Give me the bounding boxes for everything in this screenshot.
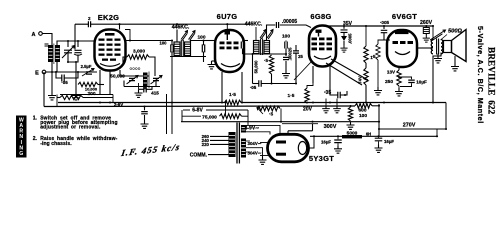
label .5 volume bbox=[264, 58, 268, 63]
IFT1 secondary winding bbox=[185, 42, 191, 56]
6G8G grid cap bbox=[316, 30, 322, 37]
6U7G leads down bbox=[222, 72, 242, 103]
5Y3GT filament bbox=[298, 142, 306, 155]
svg-text:.00005: .00005 bbox=[282, 19, 298, 25]
variable capacitor tuning gang bbox=[62, 46, 75, 63]
title BREVILLE 622 bbox=[485, 47, 495, 115]
wire bus tap 75000 bbox=[225, 103, 227, 117]
ground pair left bbox=[322, 99, 330, 113]
svg-text:5-Valve, A.C. B/C, Mantel: 5-Valve, A.C. B/C, Mantel bbox=[476, 26, 485, 124]
svg-text:2: 2 bbox=[88, 16, 91, 21]
label 270V bbox=[403, 122, 416, 128]
label .5 grid leak bbox=[371, 40, 384, 87]
svg-text:74V: 74V bbox=[358, 76, 363, 84]
resistor .5 tone bbox=[257, 106, 280, 117]
transformer T1 HT winding upper bbox=[241, 139, 246, 148]
ground below L1 bbox=[48, 92, 56, 100]
svg-text:A: A bbox=[32, 32, 36, 38]
label 300V bbox=[324, 124, 337, 130]
speaker cone bbox=[452, 30, 467, 62]
transformer T1 core bbox=[237, 123, 239, 164]
svg-text:10µF: 10µF bbox=[416, 79, 427, 84]
wire rectifier HT out bbox=[309, 136, 315, 148]
svg-text:6U7G: 6U7G bbox=[217, 12, 238, 21]
svg-text:·05: ·05 bbox=[61, 80, 68, 85]
svg-text:·5: ·5 bbox=[269, 111, 274, 117]
wire heater bus lower bbox=[44, 105, 355, 108]
wire gang to ground rail bbox=[75, 62, 77, 92]
svg-text:446KC.: 446KC. bbox=[172, 25, 190, 31]
wire IFT1 down legs bbox=[167, 57, 204, 135]
capacitor 16uF first bbox=[321, 136, 342, 145]
svg-text:50,000: 50,000 bbox=[254, 60, 259, 73]
IFT2 primary winding bbox=[254, 41, 260, 54]
ground 415 bbox=[135, 90, 143, 98]
resistor 100 divider bbox=[348, 106, 367, 121]
svg-text:EK2G: EK2G bbox=[98, 13, 120, 22]
resistor volume control bbox=[269, 55, 273, 74]
label 5Y3GT bbox=[309, 154, 334, 163]
IFT2 tuning arrow secondary bbox=[267, 30, 273, 39]
svg-text:415: 415 bbox=[151, 90, 159, 95]
wire IFT2 left rail bbox=[252, 54, 254, 84]
svg-text:100: 100 bbox=[160, 41, 168, 46]
warning item 2 bbox=[33, 136, 118, 147]
label 74V bbox=[358, 76, 363, 84]
resistor 600 field bbox=[355, 103, 379, 113]
wire IFT1 secondary to 6U7G bbox=[204, 40, 216, 42]
capacitor 100 IFT1 primary bbox=[160, 41, 174, 57]
oscillator padder 1 bbox=[127, 76, 139, 85]
capacitor 415 osc pad bbox=[139, 83, 160, 95]
svg-text:·5: ·5 bbox=[264, 58, 268, 63]
IFT1 feed stem bbox=[176, 30, 178, 43]
capacitor 100 IFT2 primary bbox=[241, 41, 243, 55]
svg-text:304V∼: 304V∼ bbox=[248, 141, 262, 146]
capacitor 100 IFT1 secondary bbox=[191, 35, 206, 57]
svg-text:300V: 300V bbox=[324, 124, 337, 130]
label 6V6GT bbox=[392, 12, 417, 21]
svg-text:16µF: 16µF bbox=[384, 139, 394, 144]
wire 270V line bbox=[379, 128, 446, 130]
electrolytic 25 cathode bbox=[293, 45, 303, 62]
svg-text:13V: 13V bbox=[387, 70, 396, 75]
svg-text:2.: 2. bbox=[33, 136, 38, 142]
svg-text:100: 100 bbox=[197, 35, 205, 41]
title 5-Valve ACBC Mantel bbox=[476, 26, 485, 124]
wire output return bbox=[445, 103, 447, 130]
svg-text:100: 100 bbox=[359, 113, 367, 119]
6V6GT cathode lead bbox=[398, 67, 400, 71]
EK2G internal electrodes bbox=[99, 33, 121, 66]
wire E lead down bbox=[43, 72, 45, 107]
ground pair right bbox=[333, 99, 341, 113]
ground T1 centre tap bbox=[259, 157, 267, 165]
label EK2G bbox=[98, 13, 120, 22]
output transformer primary bbox=[431, 26, 433, 54]
svg-text:6H: 6H bbox=[366, 131, 371, 136]
svg-text:○○○○: ○○○○ bbox=[129, 66, 140, 71]
trimmer capacitor aerial bbox=[68, 41, 82, 62]
svg-text:1·5: 1·5 bbox=[229, 92, 236, 98]
ground 16uF second bbox=[375, 145, 383, 153]
wire heater winding bottom bbox=[246, 132, 270, 135]
svg-text:·05: ·05 bbox=[250, 85, 257, 90]
wire heater bus upper bbox=[58, 102, 446, 104]
resistor 3,000 osc grid bbox=[127, 49, 149, 60]
label 500ohm field coil bbox=[441, 29, 463, 41]
wire AVC top bus bbox=[75, 23, 250, 25]
output transformer core bbox=[437, 39, 439, 55]
wire bias box bbox=[57, 95, 113, 107]
IFT2 secondary top wire bbox=[267, 25, 276, 41]
capacitor 10uF cathode bbox=[399, 77, 427, 87]
output transformer secondary bbox=[441, 40, 443, 54]
svg-text:270V: 270V bbox=[403, 122, 416, 128]
wire choke feed bbox=[310, 129, 437, 136]
output transformer arrow bbox=[430, 30, 446, 41]
mains tap 260 bbox=[202, 134, 229, 139]
wire 300V top bbox=[181, 109, 379, 122]
wire 6G8G top line bbox=[323, 25, 434, 27]
ground grid leak bbox=[374, 87, 382, 95]
capacitor 2 AVC bbox=[88, 16, 91, 27]
resistor 75,000 bbox=[182, 114, 248, 121]
capacitor 16uF second bbox=[375, 136, 395, 144]
6V6GT internal dashes bbox=[393, 41, 414, 55]
wire heater winding top bbox=[246, 125, 280, 134]
IFT1 tuning arrow secondary bbox=[189, 31, 196, 41]
6U7G cathode ground bbox=[208, 61, 217, 69]
IFT1 primary winding bbox=[174, 42, 180, 56]
capacitor heater bypass bbox=[141, 107, 148, 121]
label 446KC first IF bbox=[172, 25, 190, 31]
label 10,000 bbox=[85, 86, 98, 91]
6U7G grid cap bbox=[225, 24, 231, 40]
IFT2 tuning arrow primary bbox=[260, 30, 266, 39]
wire L1 bottom to ground bbox=[52, 62, 57, 92]
wire 6-8V line bbox=[183, 109, 248, 111]
svg-text:2.5µF: 2.5µF bbox=[81, 64, 92, 69]
6G8G leads down bbox=[313, 66, 330, 83]
capacitor 2.5uF AVC bbox=[81, 64, 94, 76]
svg-text:adjustment or removal.: adjustment or removal. bbox=[40, 125, 101, 131]
tube 6G8G envelope bbox=[309, 26, 336, 67]
svg-text:·005: ·005 bbox=[380, 20, 390, 25]
label .00025 bbox=[288, 47, 293, 60]
aerial coil L1 bbox=[45, 44, 61, 65]
ground speaker frame bbox=[451, 56, 459, 71]
terminal E bbox=[35, 70, 97, 76]
wire heater riser right bbox=[247, 110, 249, 125]
transformer T1 heater winding bbox=[241, 125, 246, 133]
svg-text:25: 25 bbox=[298, 54, 303, 59]
resistor 250 cathode bbox=[385, 70, 401, 89]
svg-text:4-9V∼: 4-9V∼ bbox=[245, 125, 260, 131]
svg-text:260V: 260V bbox=[420, 20, 433, 26]
svg-text:BREVILLE 622: BREVILLE 622 bbox=[485, 47, 495, 115]
svg-text:75,000: 75,000 bbox=[202, 115, 217, 121]
wire heater riser left bbox=[181, 110, 183, 122]
label 6G8G bbox=[310, 12, 331, 21]
note I.F. 455 kc/s bbox=[120, 142, 182, 158]
svg-text:250: 250 bbox=[385, 79, 393, 85]
ground 16uF first bbox=[334, 145, 342, 153]
EK2G top cap lead bbox=[119, 24, 121, 29]
label 6-8V bbox=[192, 107, 203, 113]
oscillator trimmer 2 bbox=[151, 76, 163, 85]
svg-text:20V: 20V bbox=[303, 106, 313, 112]
wire IFT2 bottom bbox=[243, 53, 287, 56]
capacitor -05 AF bbox=[250, 80, 296, 90]
svg-text:G: G bbox=[19, 151, 23, 157]
capacitor .005 coupling bbox=[380, 20, 390, 40]
terminal A bbox=[32, 32, 52, 45]
label 446KC second IF bbox=[245, 21, 263, 27]
svg-text:220: 220 bbox=[202, 142, 210, 147]
svg-text:-ing chassis.: -ing chassis. bbox=[40, 141, 72, 147]
svg-text:446KC.: 446KC. bbox=[245, 21, 263, 27]
6V6GT plate wire bbox=[417, 47, 433, 49]
svg-text:200: 200 bbox=[87, 91, 95, 97]
capacitor -05 aerial bbox=[56, 72, 78, 85]
label 6U7G bbox=[217, 12, 238, 21]
wire OPT secondary down bbox=[433, 53, 441, 103]
IFT1 core bbox=[181, 40, 183, 57]
6U7G internal dashes bbox=[220, 42, 241, 67]
wire L1 top to gang bbox=[57, 41, 95, 47]
transformer T1 primary bbox=[229, 132, 236, 157]
wire IFT1 bottom bbox=[170, 56, 206, 57]
label 304V lower bbox=[246, 151, 269, 156]
svg-text:304V∼: 304V∼ bbox=[248, 151, 262, 156]
resistor 50,000 AVC bbox=[78, 74, 125, 87]
capacitor .00005 bbox=[276, 19, 297, 28]
label 304V upper bbox=[246, 141, 269, 146]
oscillator coil turns bbox=[129, 66, 140, 71]
resistor 1-5 heater bbox=[225, 92, 242, 105]
capacitor .05 output bbox=[324, 76, 347, 98]
tube 5Y3GT envelope bbox=[268, 134, 309, 162]
wire EK2G plate to IFT1 bbox=[125, 30, 171, 41]
wire T1 centre tap bbox=[246, 148, 263, 157]
electrolytic 35V screen bbox=[340, 21, 352, 52]
junction tuner grid bbox=[77, 40, 79, 42]
ground 100 divider bbox=[347, 122, 355, 130]
svg-text:2-6V: 2-6V bbox=[114, 102, 123, 107]
resistor bias lower bbox=[364, 63, 368, 103]
svg-text:1.: 1. bbox=[33, 116, 38, 122]
label 4-9V heater bbox=[245, 125, 260, 131]
svg-text:100: 100 bbox=[282, 34, 290, 40]
mains tap 220 bbox=[202, 142, 229, 147]
wire 6U7G plate to IFT2 bbox=[244, 40, 249, 42]
transformer T1 HT winding lower bbox=[241, 149, 246, 158]
resistor screen dropper bbox=[364, 26, 374, 63]
svg-text:E: E bbox=[35, 71, 39, 77]
ground below gang bbox=[72, 92, 80, 100]
wire osc grid leads bbox=[120, 57, 155, 76]
label 20V bbox=[303, 106, 313, 112]
svg-text:10,000: 10,000 bbox=[85, 86, 98, 91]
tube EK2G envelope bbox=[95, 30, 126, 71]
wire .00005 to 6G8G grid bbox=[280, 25, 311, 28]
wire top bus down to tuner bbox=[74, 24, 76, 49]
svg-text:·5: ·5 bbox=[371, 54, 375, 59]
ground detector bbox=[282, 70, 290, 78]
IFT2 secondary winding bbox=[264, 41, 270, 54]
svg-text:.00025: .00025 bbox=[288, 47, 293, 60]
ground output transformer bbox=[434, 54, 442, 63]
label 2-6V bbox=[114, 102, 123, 107]
resistor 260V screen feed bbox=[420, 20, 433, 42]
svg-text:6G8G: 6G8G bbox=[310, 12, 331, 21]
svg-text:6V6GT: 6V6GT bbox=[392, 12, 417, 21]
5Y3GT plate upper bbox=[276, 141, 286, 144]
wire 25 to AF line bbox=[295, 62, 297, 84]
svg-text:COMM.: COMM. bbox=[190, 152, 208, 158]
svg-text:600: 600 bbox=[358, 107, 366, 113]
wire 300V lower bbox=[282, 124, 318, 135]
IFT2 primary stem bbox=[255, 27, 257, 41]
svg-text:6-8V: 6-8V bbox=[192, 107, 203, 113]
ground 250 cathode bbox=[395, 88, 403, 96]
capacitor .00025 bbox=[283, 54, 289, 70]
wire oscillator bottom bbox=[124, 81, 160, 90]
wire volume bottom bbox=[271, 74, 273, 84]
wire AVC junction bbox=[98, 84, 104, 86]
tube 6V6GT envelope bbox=[387, 30, 417, 67]
svg-text:1·5: 1·5 bbox=[288, 93, 295, 99]
resistor 200 bias bbox=[57, 91, 96, 100]
6G8G internal dashes bbox=[312, 38, 333, 60]
svg-text:.0005: .0005 bbox=[348, 33, 353, 44]
tube 6U7G envelope bbox=[215, 30, 244, 72]
speaker driver bbox=[444, 41, 452, 53]
EK2G cathode leads bbox=[100, 70, 120, 95]
resistor 1-5 screen bbox=[288, 83, 313, 103]
mains tap COMM bbox=[190, 152, 229, 158]
ground heater bypass bbox=[141, 121, 149, 129]
6V6GT grid bar bbox=[395, 31, 409, 35]
warning banner bbox=[16, 116, 27, 158]
wire HT rail right bbox=[378, 104, 380, 136]
svg-text:16µF: 16µF bbox=[321, 139, 331, 144]
5Y3GT plate lower bbox=[276, 153, 286, 156]
capacitor 100 IFT2 secondary bbox=[282, 34, 290, 54]
mains tap 240 bbox=[202, 138, 229, 143]
6G8G diagonal wires bbox=[294, 59, 368, 85]
warning item 1 bbox=[33, 116, 118, 131]
IFT1 tuning arrow primary bbox=[181, 31, 188, 41]
choke 6H bbox=[342, 130, 371, 138]
label 50,000 diode load bbox=[254, 60, 259, 73]
IFT2 core bbox=[261, 39, 263, 56]
svg-text:5Y3GT: 5Y3GT bbox=[309, 154, 334, 163]
oscillator coil L2 bbox=[143, 72, 149, 89]
